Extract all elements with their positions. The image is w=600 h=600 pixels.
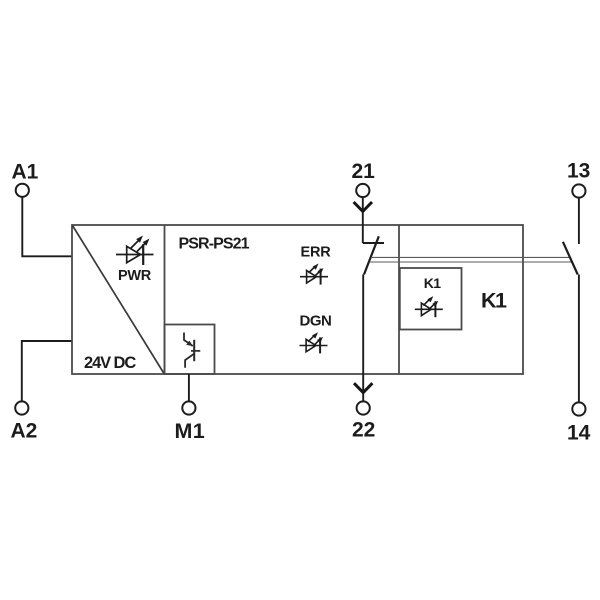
wire M1	[188, 374, 190, 401]
K1 LED	[415, 296, 443, 317]
arrow on wire 21	[354, 202, 372, 211]
svg-text:M1: M1	[175, 419, 205, 443]
svg-text:PWR: PWR	[118, 268, 152, 284]
transistor output symbol	[184, 333, 200, 368]
mechanical link line upper	[371, 256, 570, 258]
terminal 21	[356, 184, 369, 197]
terminal A1	[16, 184, 29, 197]
svg-text:14: 14	[567, 422, 591, 445]
svg-text:DGN: DGN	[300, 313, 332, 330]
svg-text:24V DC: 24V DC	[84, 354, 136, 372]
svg-text:ERR: ERR	[301, 245, 332, 261]
NO contact blade 13-14	[563, 242, 578, 275]
wire 21 down to contact	[362, 197, 364, 243]
NC contact fixed bar	[363, 242, 384, 244]
svg-text:A2: A2	[11, 420, 38, 443]
power supply diagonal	[73, 226, 165, 374]
mechanical link line lower	[369, 261, 571, 263]
wire 14 down	[578, 275, 580, 403]
wire A2 to power supply	[22, 341, 72, 401]
wire A1 to power supply	[22, 197, 72, 256]
DGN LED	[300, 332, 328, 353]
transistor output box	[165, 325, 215, 375]
ERR LED	[300, 264, 328, 285]
terminal M1	[182, 401, 195, 414]
wire 13 down	[578, 198, 580, 244]
svg-text:K1: K1	[424, 275, 442, 291]
PWR LED	[116, 236, 154, 266]
K1 coil box	[400, 268, 462, 330]
wire 22 down	[362, 275, 364, 402]
arrow on wire 22	[354, 383, 372, 392]
terminal A2	[15, 401, 28, 414]
terminal 14	[572, 402, 585, 415]
svg-text:22: 22	[352, 419, 375, 442]
svg-text:21: 21	[352, 160, 376, 183]
svg-text:PSR-PS21: PSR-PS21	[179, 235, 250, 252]
svg-text:13: 13	[567, 160, 590, 183]
svg-text:A1: A1	[12, 161, 39, 184]
svg-text:K1: K1	[481, 289, 507, 313]
terminal 13	[572, 184, 585, 197]
K1 section divider	[398, 225, 400, 374]
NC contact blade 21-22	[364, 236, 379, 274]
device outline box	[72, 225, 523, 374]
power supply section right edge	[164, 225, 166, 374]
terminal 22	[357, 401, 370, 414]
